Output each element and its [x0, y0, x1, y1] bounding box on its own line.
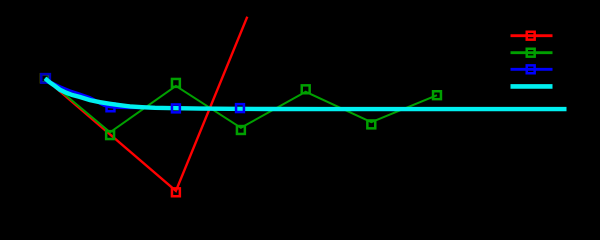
green marker 2	[172, 79, 180, 87]
green marker 0	[41, 74, 49, 82]
blue marker 2	[172, 104, 180, 112]
blue marker 0 (start)	[41, 74, 50, 83]
red series line	[45, 17, 247, 191]
blue marker 3	[236, 104, 244, 112]
green marker 3	[237, 126, 245, 134]
legend cyan sample	[511, 84, 553, 89]
green series zigzag line	[45, 78, 437, 132]
green marker 6	[433, 91, 441, 99]
green marker 4	[302, 85, 310, 93]
blue marker 1	[107, 103, 115, 111]
legend green sample	[511, 51, 553, 54]
legend blue sample	[511, 68, 553, 71]
legend red sample	[511, 34, 553, 37]
green marker 1	[106, 131, 114, 139]
blue series curve	[45, 78, 240, 108]
green marker 5	[367, 120, 375, 128]
red marker at start	[41, 74, 49, 82]
cyan exact-solution curve	[45, 78, 567, 109]
red marker at minimum	[172, 188, 180, 196]
